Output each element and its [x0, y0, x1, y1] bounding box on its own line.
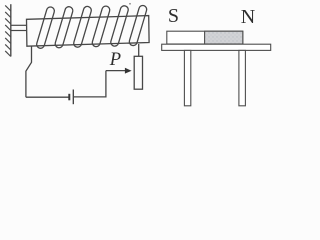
- svg-text:S: S: [168, 5, 179, 27]
- magnet N pole shaded: [205, 31, 243, 44]
- table left leg: [184, 50, 190, 105]
- coil turn 5: [110, 5, 129, 47]
- coil turn 1: [36, 6, 56, 49]
- svg-text:N: N: [241, 6, 255, 28]
- battery negative plate: [68, 94, 70, 101]
- wire coil to rheostat: [138, 44, 140, 56]
- coil turn 2: [54, 6, 74, 49]
- scan speck: [129, 3, 131, 5]
- svg-text:P: P: [109, 50, 121, 70]
- coil turn 3: [73, 5, 92, 48]
- battery positive plate: [72, 90, 74, 105]
- wire bottom right: [73, 71, 106, 97]
- rheostat R: [134, 56, 142, 89]
- core rod stubs: [11, 25, 27, 30]
- wall: [5, 4, 11, 56]
- wire bottom left: [26, 96, 69, 98]
- wire left lead with switch: [26, 46, 32, 97]
- coil body box L: [27, 16, 150, 47]
- table top: [162, 44, 271, 50]
- coil turn 4: [91, 5, 110, 47]
- slider arrow shaft: [106, 70, 126, 72]
- coil turn 6: [128, 5, 147, 47]
- table right leg: [239, 50, 246, 105]
- slider arrow head: [125, 68, 132, 74]
- magnet bar outline: [167, 31, 243, 44]
